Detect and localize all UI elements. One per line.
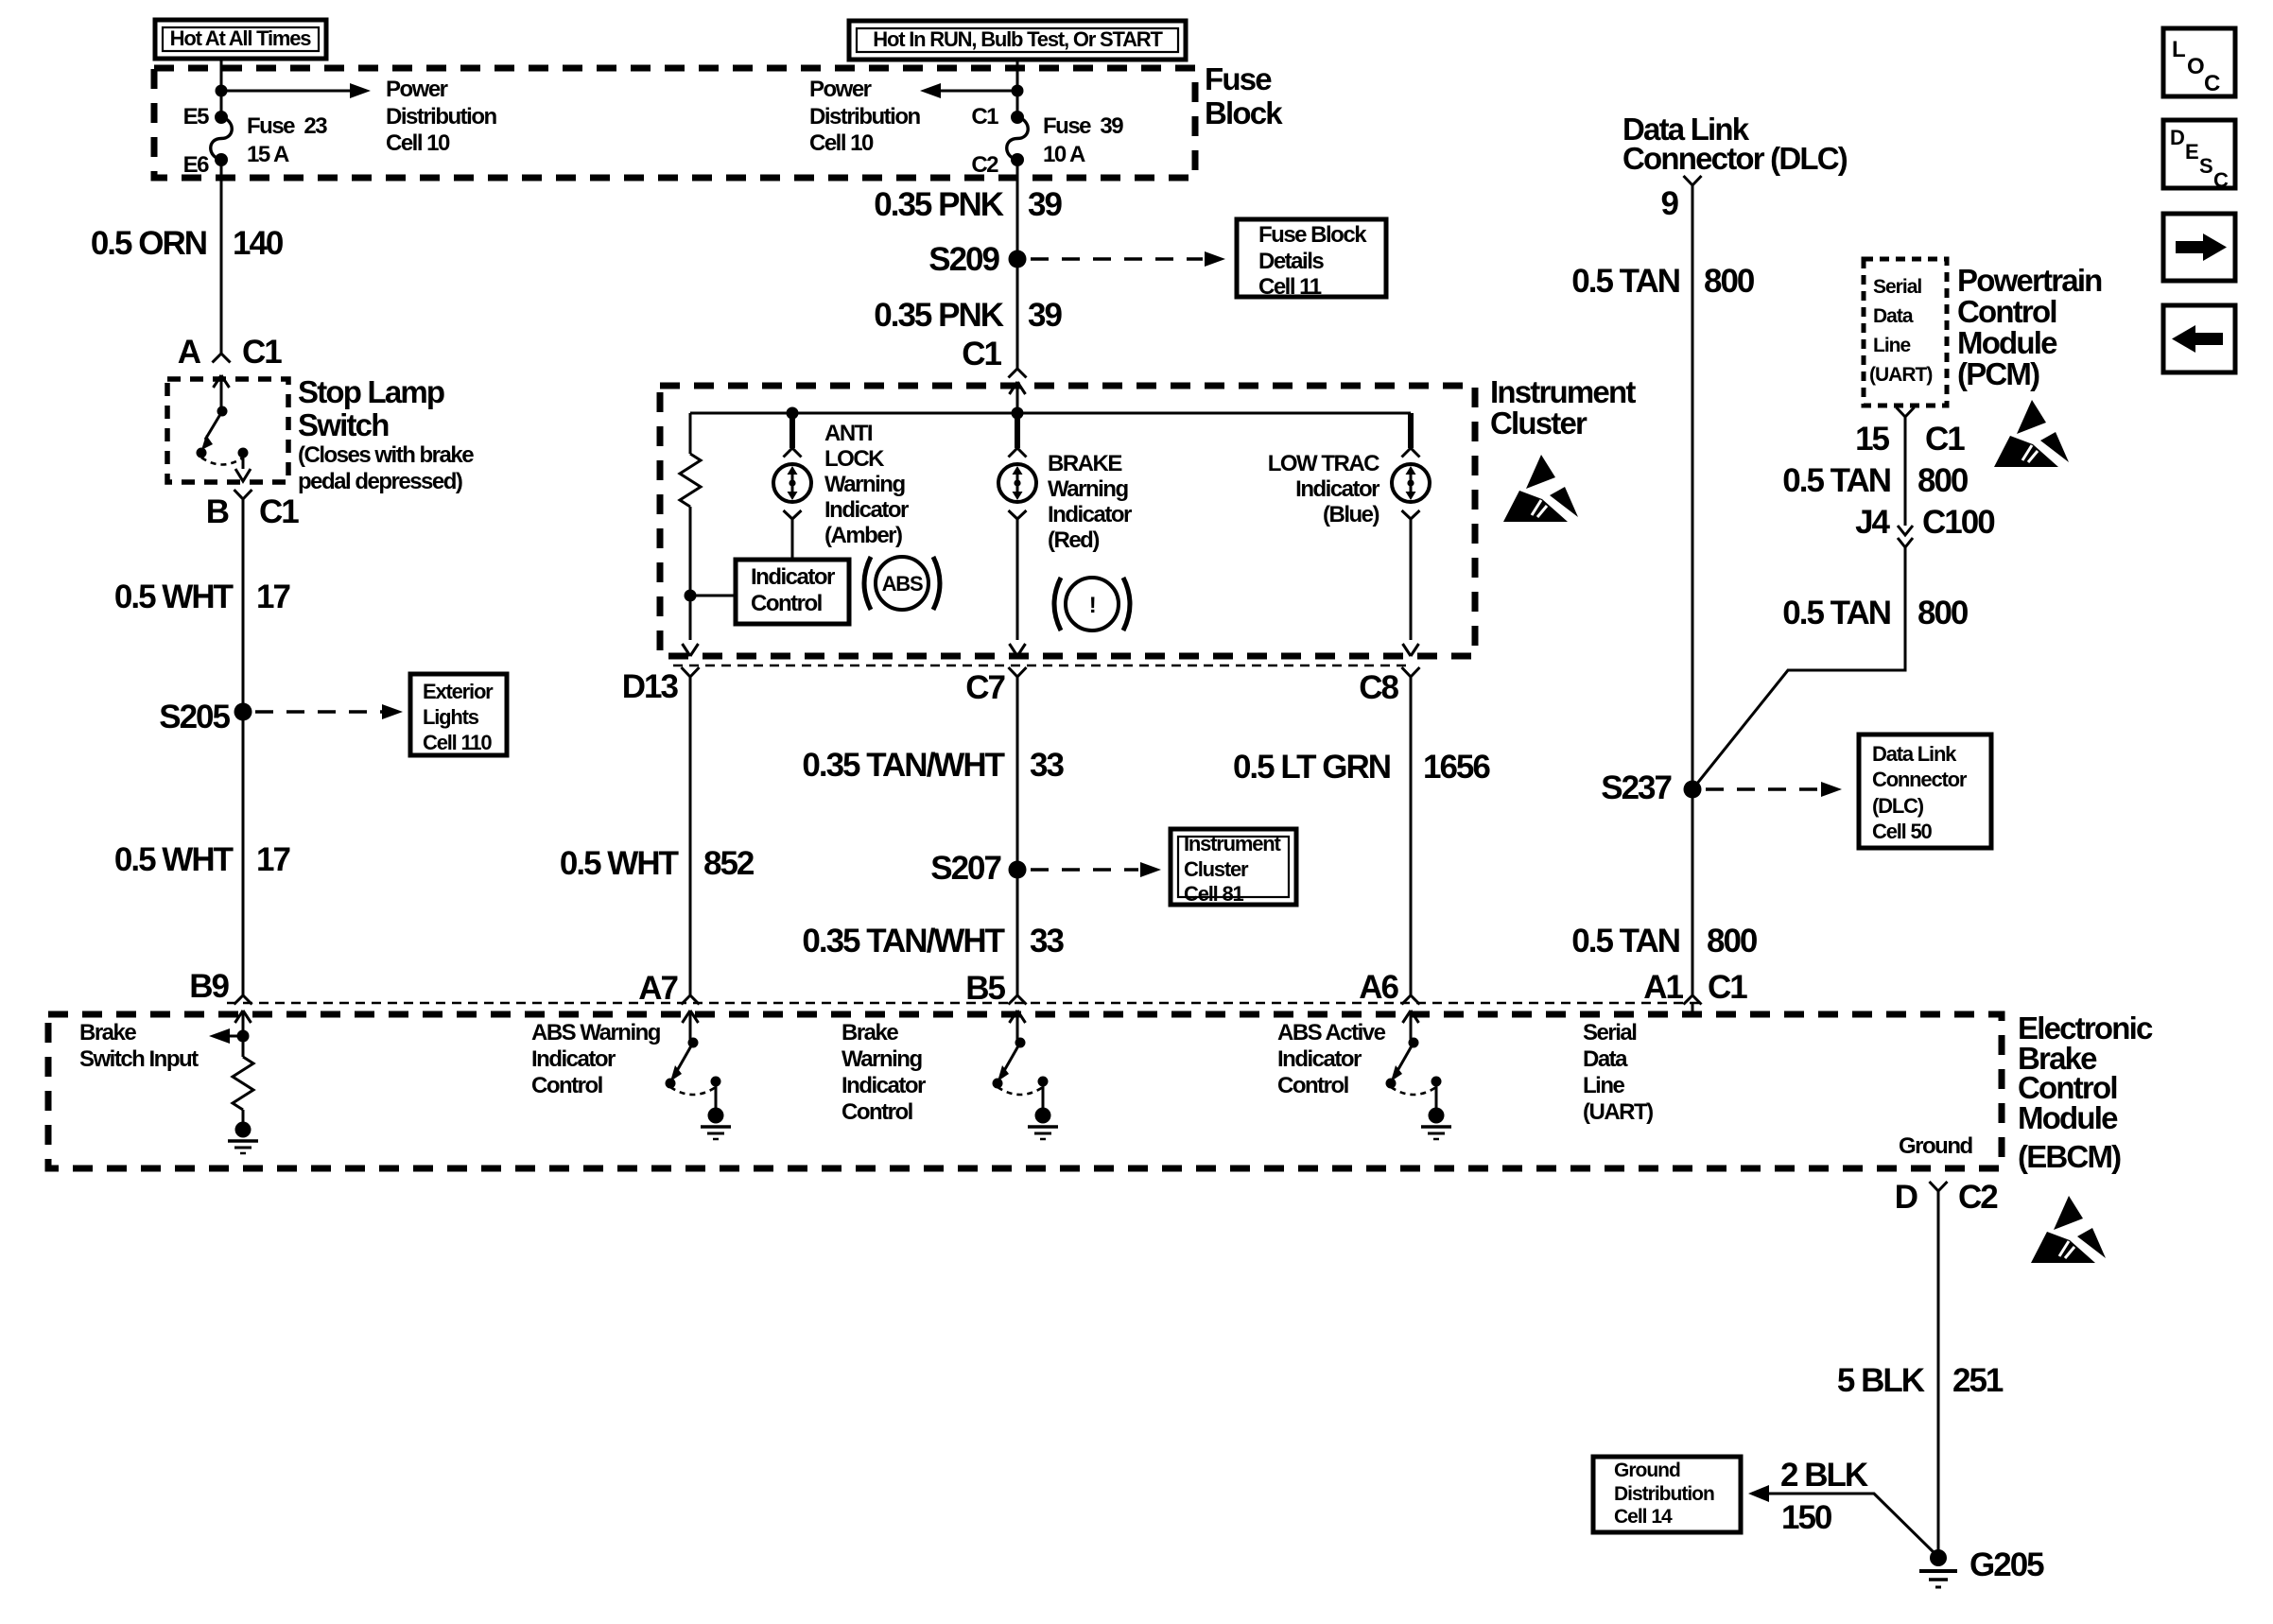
svg-text:33: 33 bbox=[1030, 747, 1064, 784]
label: 0.35 TAN/WHT 33 (upper) bbox=[802, 747, 1064, 784]
indicator control box bbox=[736, 560, 849, 624]
svg-text:Distribution: Distribution bbox=[1614, 1483, 1714, 1505]
svg-text:Exterior: Exterior bbox=[423, 680, 494, 703]
svg-text:Ground: Ground bbox=[1614, 1460, 1680, 1481]
svg-text:Indicator: Indicator bbox=[1277, 1046, 1362, 1072]
icon box: DESC bbox=[2163, 120, 2235, 192]
wire: 2 BLK 150 to G205 bbox=[1769, 1494, 1938, 1557]
svg-text:Cluster: Cluster bbox=[1490, 406, 1588, 441]
arrow: brake branch exits cluster (C7) bbox=[1010, 644, 1026, 656]
switch: brake warning indicator control (B5) bbox=[993, 1011, 1059, 1139]
arrow into Ground Distribution box bbox=[1748, 1485, 1769, 1502]
connector A6 into EBCM bbox=[1359, 969, 1419, 1006]
EBCM brake switch input: entry arrow and junction bbox=[235, 1011, 252, 1043]
ground G205 bbox=[1919, 1546, 2044, 1587]
svg-text:(PCM): (PCM) bbox=[1957, 356, 2039, 391]
label: Fuse 39 10 A bbox=[1043, 113, 1123, 167]
svg-text:10 A: 10 A bbox=[1043, 142, 1085, 167]
svg-text:C100: C100 bbox=[1922, 504, 1995, 541]
connector A7 into EBCM bbox=[638, 970, 699, 1007]
svg-text:Control: Control bbox=[1957, 294, 2056, 329]
svg-text:LOW TRAC: LOW TRAC bbox=[1268, 451, 1379, 476]
svg-text:Details: Details bbox=[1258, 249, 1324, 274]
svg-text:140: 140 bbox=[233, 225, 284, 262]
svg-text:Power: Power bbox=[809, 77, 872, 102]
label: Fuse Block title bbox=[1205, 61, 1283, 130]
svg-text:ANTI: ANTI bbox=[824, 421, 873, 446]
svg-text:0.5 LT GRN: 0.5 LT GRN bbox=[1233, 749, 1390, 786]
svg-text:C: C bbox=[2204, 71, 2220, 96]
wire: battery feed into fuse 23 bbox=[220, 59, 223, 117]
svg-text:E6: E6 bbox=[183, 152, 210, 178]
svg-text:C8: C8 bbox=[1359, 669, 1398, 706]
connector A / C1 at stop lamp switch bbox=[178, 334, 283, 411]
arrow: brake switch input pointer bbox=[209, 1028, 243, 1044]
svg-text:33: 33 bbox=[1030, 923, 1064, 959]
wire: low trac lamp down to cluster exit C8 bbox=[1410, 519, 1413, 640]
header box: Hot At All Times bbox=[155, 20, 326, 59]
reference box: Instrument Cluster Cell 81 bbox=[1171, 829, 1296, 906]
svg-text:Block: Block bbox=[1205, 95, 1283, 130]
svg-text:251: 251 bbox=[1952, 1362, 2004, 1399]
svg-text:Indicator: Indicator bbox=[1295, 476, 1379, 502]
svg-text:Hot In RUN, Bulb Test, Or STAR: Hot In RUN, Bulb Test, Or START bbox=[873, 27, 1163, 51]
connector A1 / C1 into EBCM bbox=[1643, 969, 1747, 1014]
svg-text:A6: A6 bbox=[1359, 969, 1398, 1006]
svg-text:Control: Control bbox=[1277, 1073, 1348, 1098]
wire: anti-lock lamp to indicator control bbox=[791, 519, 794, 560]
svg-text:B: B bbox=[206, 493, 229, 530]
svg-text:S: S bbox=[2199, 154, 2212, 178]
label: 5 BLK 251 bbox=[1837, 1362, 2004, 1399]
wire: 0.35 TAN/WHT 33 (C7 to B5) bbox=[1016, 677, 1019, 995]
fuse F39 symbol bbox=[1007, 117, 1029, 160]
resistor in cluster (to indicator control) bbox=[680, 413, 701, 640]
svg-text:(Closes with brake: (Closes with brake bbox=[298, 442, 474, 468]
label: BRAKE Warning Indicator (Red) bbox=[1048, 451, 1132, 553]
wire: 0.5 TAN 800 from J4 to S237 bbox=[1692, 547, 1905, 789]
svg-text:Module: Module bbox=[2018, 1100, 2118, 1135]
svg-text:Indicator: Indicator bbox=[531, 1046, 616, 1072]
label: 0.5 WHT 17 (lower) bbox=[114, 841, 290, 878]
svg-text:L: L bbox=[2172, 37, 2185, 62]
svg-text:17: 17 bbox=[256, 841, 289, 878]
svg-text:E: E bbox=[2185, 140, 2198, 164]
reference box: Data Link Connector (DLC) Cell 50 bbox=[1859, 734, 1991, 848]
icon: ABS telltale bbox=[864, 557, 940, 610]
svg-text:Power: Power bbox=[386, 77, 448, 102]
label: Electronic Brake Control Module (EBCM) bbox=[2018, 1011, 2153, 1174]
svg-text:800: 800 bbox=[1707, 923, 1758, 959]
wire: 0.5 LT GRN 1656 (C8 to A6) bbox=[1410, 677, 1413, 995]
label: Fuse 23 15 A bbox=[247, 113, 327, 167]
svg-text:Control: Control bbox=[751, 591, 822, 616]
wire: 0.5 TAN 800 from PCM to J4 bbox=[1904, 417, 1907, 526]
node: junction on fuse 39 feed bbox=[1012, 85, 1024, 97]
label: 2 BLK 150 bbox=[1780, 1457, 1868, 1536]
connector C7 bbox=[965, 667, 1026, 706]
fuse block dashed outline bbox=[154, 68, 1195, 178]
EBCM connector dashed line bbox=[227, 1002, 1702, 1005]
svg-text:Indicator: Indicator bbox=[824, 497, 909, 523]
connector D13 bbox=[622, 667, 700, 705]
svg-text:150: 150 bbox=[1781, 1499, 1832, 1536]
svg-text:Line: Line bbox=[1583, 1073, 1624, 1098]
svg-text:Fuse 39: Fuse 39 bbox=[1043, 113, 1123, 139]
svg-text:800: 800 bbox=[1704, 263, 1755, 300]
svg-text:Distribution: Distribution bbox=[386, 104, 496, 130]
connector B5 into EBCM bbox=[965, 970, 1026, 1007]
svg-text:0.35 TAN/WHT: 0.35 TAN/WHT bbox=[802, 923, 1004, 959]
connector 15 / C1 below PCM bbox=[1855, 407, 1965, 458]
svg-text:2 BLK: 2 BLK bbox=[1780, 1457, 1868, 1494]
svg-text:852: 852 bbox=[703, 845, 755, 882]
arrow: low trac branch exits cluster (C8) bbox=[1403, 644, 1419, 656]
svg-text:Data: Data bbox=[1873, 305, 1914, 327]
svg-text:Control: Control bbox=[842, 1099, 912, 1125]
svg-text:S207: S207 bbox=[930, 850, 1000, 887]
svg-text:Module: Module bbox=[1957, 325, 2057, 360]
svg-text:G205: G205 bbox=[1969, 1546, 2044, 1583]
wire: 0.5 WHT 17 down to EBCM B9 bbox=[242, 499, 245, 995]
svg-text:Connector (DLC): Connector (DLC) bbox=[1622, 141, 1848, 176]
svg-text:Warning: Warning bbox=[842, 1046, 922, 1072]
label: 0.5 ORN 140 bbox=[91, 225, 284, 262]
svg-text:(UART): (UART) bbox=[1869, 364, 1932, 386]
svg-text:Warning: Warning bbox=[824, 472, 905, 497]
icon box: LOC bbox=[2163, 28, 2235, 96]
node: junction on fuse 23 feed bbox=[216, 85, 228, 97]
svg-text:15: 15 bbox=[1855, 421, 1889, 458]
svg-text:Cell 50: Cell 50 bbox=[1872, 820, 1932, 843]
stop lamp switch contacts and blade bbox=[197, 406, 252, 482]
label: LOW TRAC Indicator (Blue) bbox=[1268, 451, 1379, 527]
reference box: Exterior Lights Cell 110 bbox=[410, 674, 507, 755]
svg-text:0.5 TAN: 0.5 TAN bbox=[1782, 595, 1890, 631]
svg-text:A7: A7 bbox=[638, 970, 677, 1007]
switch: ABS warning indicator control (A7) bbox=[666, 1011, 732, 1139]
svg-text:C1: C1 bbox=[259, 493, 299, 530]
wire: 0.5 WHT 852 (D13 to A7) bbox=[689, 677, 692, 995]
svg-text:C2: C2 bbox=[1958, 1179, 1998, 1216]
splice S205 bbox=[159, 699, 252, 735]
svg-text:17: 17 bbox=[256, 579, 289, 615]
lamp: LOW TRAC indicator bbox=[1392, 413, 1430, 519]
label: Stop Lamp Switch bbox=[298, 374, 474, 494]
node: bus junction at anti-lock lamp bbox=[787, 407, 799, 420]
node: junction resistor / indicator control bbox=[685, 590, 697, 602]
svg-text:Switch Input: Switch Input bbox=[79, 1046, 199, 1072]
wire: cluster supply bus bbox=[690, 412, 1411, 415]
svg-text:S237: S237 bbox=[1601, 769, 1671, 806]
svg-text:(EBCM): (EBCM) bbox=[2018, 1139, 2121, 1174]
svg-text:Cluster: Cluster bbox=[1184, 857, 1249, 881]
ground (case) in EBCM brake switch input bbox=[228, 1122, 258, 1154]
svg-text:Powertrain: Powertrain bbox=[1957, 263, 2102, 298]
connector pin 9 of DLC bbox=[1661, 176, 1702, 222]
svg-text:D: D bbox=[1895, 1179, 1917, 1216]
svg-text:Brake: Brake bbox=[79, 1020, 136, 1045]
svg-text:39: 39 bbox=[1028, 297, 1062, 334]
svg-text:C1: C1 bbox=[242, 334, 282, 371]
svg-text:!: ! bbox=[1089, 593, 1096, 618]
svg-text:pedal depressed): pedal depressed) bbox=[298, 469, 462, 494]
svg-text:Serial: Serial bbox=[1873, 276, 1921, 298]
svg-text:800: 800 bbox=[1917, 462, 1969, 499]
svg-text:Brake: Brake bbox=[842, 1020, 898, 1045]
ESD symbol (PCM) bbox=[1994, 400, 2069, 467]
svg-text:Data: Data bbox=[1583, 1046, 1628, 1072]
connector B9 into EBCM bbox=[189, 968, 252, 1005]
svg-text:(Amber): (Amber) bbox=[824, 523, 902, 548]
label: Data Link Connector (DLC) bbox=[1622, 112, 1848, 176]
label: Instrument Cluster title bbox=[1490, 374, 1636, 441]
svg-text:C1: C1 bbox=[1708, 969, 1747, 1006]
svg-text:Switch: Switch bbox=[298, 407, 389, 442]
svg-text:1656: 1656 bbox=[1423, 749, 1490, 786]
splice S237 bbox=[1601, 769, 1701, 806]
fuse F23 symbol bbox=[211, 117, 233, 160]
wire: 0.5 TAN 800 from DLC to EBCM A1 bbox=[1692, 185, 1694, 995]
reference box: Ground Distribution Cell 14 bbox=[1593, 1457, 1741, 1532]
svg-text:BRAKE: BRAKE bbox=[1048, 451, 1122, 476]
dashed arrow from S205 to Exterior Lights bbox=[255, 704, 403, 719]
svg-text:Cell 11: Cell 11 bbox=[1258, 274, 1322, 300]
label: Brake Switch Input bbox=[79, 1020, 199, 1072]
dashed arrow from S237 to DLC cell box bbox=[1706, 782, 1842, 797]
splice S207 bbox=[930, 850, 1026, 887]
svg-text:ABS Warning: ABS Warning bbox=[531, 1020, 661, 1045]
lamp: ANTI LOCK warning indicator bbox=[773, 413, 811, 519]
svg-text:5 BLK: 5 BLK bbox=[1837, 1362, 1925, 1399]
svg-text:Instrument: Instrument bbox=[1490, 374, 1636, 409]
svg-text:0.5 WHT: 0.5 WHT bbox=[114, 841, 234, 878]
svg-text:0.5 WHT: 0.5 WHT bbox=[114, 579, 234, 615]
label: Power Distribution Cell 10 (right) bbox=[809, 77, 920, 156]
svg-text:0.5 TAN: 0.5 TAN bbox=[1571, 923, 1679, 959]
arrow: resistor branch exits cluster (D13) bbox=[683, 644, 699, 656]
icon: brake telltale bbox=[1054, 578, 1130, 631]
splice S209 bbox=[928, 241, 1026, 278]
svg-text:D13: D13 bbox=[622, 668, 679, 705]
svg-text:Control: Control bbox=[531, 1073, 602, 1098]
icon box: arrow right bbox=[2163, 214, 2235, 281]
wire: ignition feed into fuse 39 bbox=[1016, 60, 1019, 117]
svg-text:Fuse Block: Fuse Block bbox=[1258, 222, 1367, 248]
label: ABS Active Indicator Control bbox=[1277, 1020, 1386, 1098]
svg-text:Ground: Ground bbox=[1899, 1133, 1972, 1159]
svg-text:(Blue): (Blue) bbox=[1323, 502, 1379, 527]
svg-text:C2: C2 bbox=[971, 152, 998, 178]
svg-text:S209: S209 bbox=[928, 241, 999, 278]
instrument cluster dashed box bbox=[660, 386, 1475, 656]
svg-text:Lights: Lights bbox=[423, 705, 479, 729]
label: 0.5 WHT 17 (upper) bbox=[114, 579, 290, 615]
svg-text:Distribution: Distribution bbox=[809, 104, 920, 130]
svg-text:0.5 TAN: 0.5 TAN bbox=[1782, 462, 1890, 499]
resistor in EBCM brake switch input bbox=[233, 1036, 253, 1122]
svg-text:Warning: Warning bbox=[1048, 476, 1128, 502]
wire: brake lamp down to cluster exit C7 bbox=[1016, 519, 1019, 640]
stop lamp switch dashed box bbox=[167, 379, 288, 482]
label: 0.35 PNK 39 (lower) bbox=[874, 297, 1062, 334]
label: 0.35 TAN/WHT 33 (lower) bbox=[802, 923, 1064, 959]
svg-text:Cell 110: Cell 110 bbox=[423, 731, 492, 754]
svg-text:C1: C1 bbox=[1925, 421, 1965, 458]
svg-text:Indicator: Indicator bbox=[842, 1073, 926, 1098]
wire: 5 BLK 251 from EBCM to G205 bbox=[1937, 1191, 1940, 1558]
terminal E5 bbox=[183, 104, 228, 130]
svg-text:O: O bbox=[2187, 54, 2204, 79]
svg-text:ABS: ABS bbox=[882, 572, 923, 596]
svg-text:C7: C7 bbox=[965, 669, 1004, 706]
switch: ABS active indicator control (A6) bbox=[1386, 1011, 1452, 1139]
svg-text:Indicator: Indicator bbox=[1048, 502, 1132, 527]
header box: Hot In RUN, Bulb Test, Or START bbox=[849, 21, 1186, 60]
svg-text:Fuse 23: Fuse 23 bbox=[247, 113, 327, 139]
svg-text:39: 39 bbox=[1028, 186, 1062, 223]
arrow to Power Distribution (right) bbox=[920, 83, 1017, 98]
svg-text:C1: C1 bbox=[971, 104, 998, 130]
label: 0.5 TAN 800 (DLC lower) bbox=[1571, 923, 1758, 959]
terminal C2 of fuse 39 bbox=[971, 152, 1024, 178]
svg-text:0.35 PNK: 0.35 PNK bbox=[874, 297, 1003, 334]
terminal E6 bbox=[183, 152, 228, 178]
label: Ground in EBCM bbox=[1899, 1133, 1972, 1159]
label: 0.5 LT GRN 1656 bbox=[1233, 749, 1490, 786]
svg-text:Data Link: Data Link bbox=[1872, 742, 1957, 766]
connector C1 into instrument cluster bbox=[962, 336, 1026, 413]
connector B / C1 below stop lamp switch bbox=[206, 490, 300, 530]
svg-text:B9: B9 bbox=[189, 968, 229, 1005]
label: Serial Data Line (UART) in PCM bbox=[1869, 276, 1932, 386]
label: Serial Data Line (UART) in EBCM bbox=[1583, 1020, 1653, 1125]
svg-text:0.35 PNK: 0.35 PNK bbox=[874, 186, 1003, 223]
svg-text:C: C bbox=[2213, 168, 2229, 192]
svg-text:Cell 10: Cell 10 bbox=[809, 130, 874, 156]
svg-text:800: 800 bbox=[1917, 595, 1969, 631]
reference box: Fuse Block Details Cell 11 bbox=[1237, 219, 1386, 300]
label: Powertrain Control Module (PCM) bbox=[1957, 263, 2102, 391]
ESD symbol (instrument cluster) bbox=[1503, 455, 1578, 522]
svg-text:Line: Line bbox=[1873, 335, 1910, 356]
wire: 0.35 PNK 39 from C2 to instrument cluster bbox=[1016, 160, 1019, 369]
node: bus junction at brake lamp bbox=[1012, 407, 1024, 420]
svg-text:LOCK: LOCK bbox=[824, 446, 885, 472]
arrow to Power Distribution (left) bbox=[221, 83, 371, 98]
wire: indicator control to resistor branch bbox=[690, 595, 736, 597]
label: 0.5 TAN 800 (PCM upper) bbox=[1782, 462, 1969, 499]
ESD symbol (EBCM) bbox=[2031, 1196, 2106, 1263]
svg-text:Fuse: Fuse bbox=[1205, 61, 1272, 96]
dashed arrow from S209 to Fuse Block Details bbox=[1031, 251, 1225, 267]
label: ABS Warning Indicator Control bbox=[531, 1020, 661, 1098]
svg-text:9: 9 bbox=[1661, 185, 1679, 222]
connector D / C2 below EBCM bbox=[1895, 1179, 1999, 1216]
label: Brake Warning Indicator Control bbox=[842, 1020, 926, 1125]
svg-text:A1: A1 bbox=[1643, 969, 1683, 1006]
svg-text:(DLC): (DLC) bbox=[1872, 794, 1924, 818]
svg-text:Connector: Connector bbox=[1872, 768, 1968, 791]
svg-text:(Red): (Red) bbox=[1048, 527, 1099, 553]
terminal C1 of fuse 39 bbox=[971, 104, 1024, 130]
svg-text:Cell 14: Cell 14 bbox=[1614, 1506, 1673, 1528]
svg-text:0.5 TAN: 0.5 TAN bbox=[1571, 263, 1679, 300]
svg-text:Stop Lamp: Stop Lamp bbox=[298, 374, 444, 409]
lamp: BRAKE warning indicator bbox=[998, 413, 1036, 519]
svg-text:0.5 ORN: 0.5 ORN bbox=[91, 225, 206, 262]
svg-text:15 A: 15 A bbox=[247, 142, 289, 167]
svg-text:0.35 TAN/WHT: 0.35 TAN/WHT bbox=[802, 747, 1004, 784]
svg-text:Hot At All Times: Hot At All Times bbox=[170, 26, 312, 50]
svg-text:Indicator: Indicator bbox=[751, 564, 835, 590]
svg-text:A: A bbox=[178, 334, 201, 371]
label: 0.5 TAN 800 (DLC upper) bbox=[1571, 263, 1755, 300]
wire: 0.5 ORN 140 from E6 to stop lamp switch bbox=[220, 160, 223, 354]
svg-text:J4: J4 bbox=[1855, 504, 1890, 541]
svg-text:B5: B5 bbox=[965, 970, 1005, 1007]
svg-text:E5: E5 bbox=[183, 104, 210, 130]
EBCM dashed box bbox=[48, 1014, 2002, 1168]
icon box: arrow left bbox=[2163, 305, 2235, 372]
svg-text:Cell 81: Cell 81 bbox=[1184, 882, 1243, 906]
label: Power Distribution Cell 10 (left) bbox=[386, 77, 496, 156]
dashed arrow from S207 to Instrument Cluster cell box bbox=[1031, 862, 1161, 877]
label: 0.35 PNK 39 (upper) bbox=[874, 186, 1062, 223]
svg-text:Instrument: Instrument bbox=[1184, 832, 1282, 855]
svg-text:D: D bbox=[2170, 126, 2184, 149]
svg-text:0.5 WHT: 0.5 WHT bbox=[560, 845, 679, 882]
label: 0.5 WHT 852 bbox=[560, 845, 755, 882]
label: 0.5 TAN 800 (PCM lower) bbox=[1782, 595, 1969, 631]
svg-text:(UART): (UART) bbox=[1583, 1099, 1653, 1125]
svg-text:C1: C1 bbox=[962, 336, 1001, 372]
svg-text:S205: S205 bbox=[159, 699, 230, 735]
cluster connector dashed line bbox=[673, 665, 1409, 667]
svg-text:ABS Active: ABS Active bbox=[1277, 1020, 1386, 1045]
PCM serial data line dashed box bbox=[1864, 259, 1947, 406]
label: ANTI LOCK Warning Indicator (Amber) bbox=[824, 421, 909, 548]
connector C8 bbox=[1359, 667, 1419, 706]
svg-text:Serial: Serial bbox=[1583, 1020, 1636, 1045]
svg-text:Cell 10: Cell 10 bbox=[386, 130, 450, 156]
inline connector J4 / C100 bbox=[1855, 504, 1995, 547]
